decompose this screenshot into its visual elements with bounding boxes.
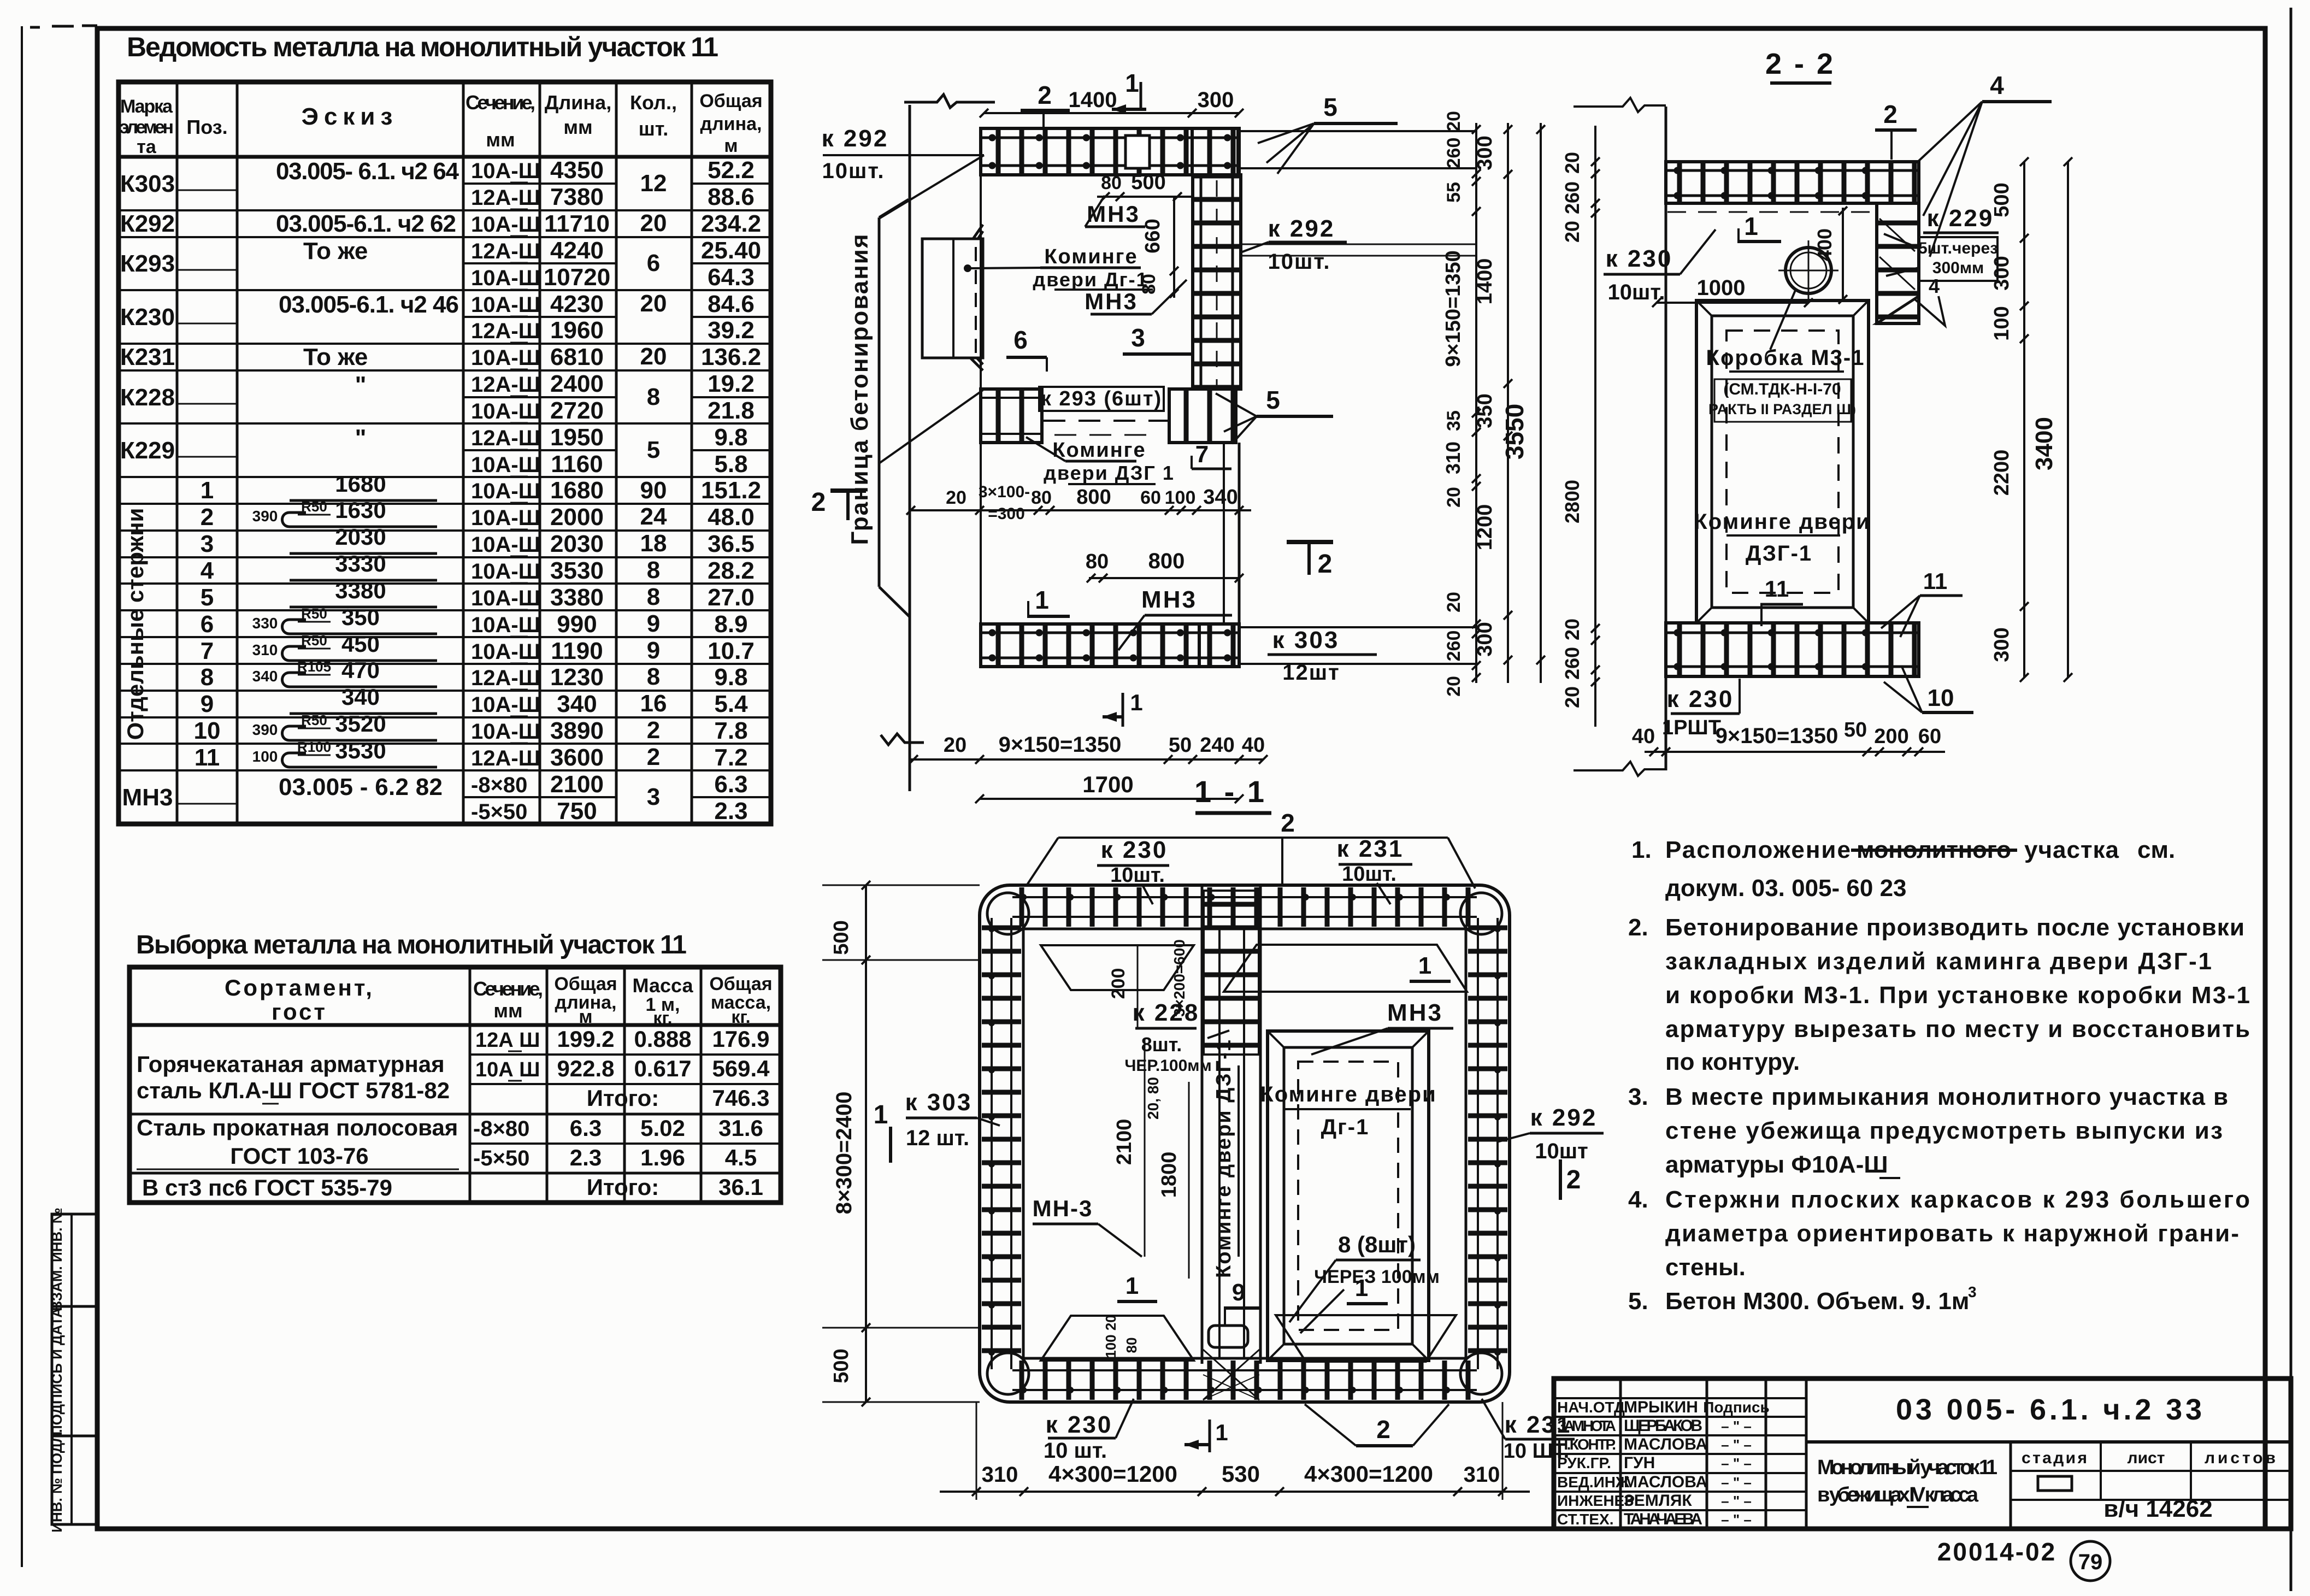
shaft rebar к228	[1204, 891, 1259, 1055]
table 1 values, Общая длина column	[701, 157, 761, 824]
left stamp strip box	[52, 1214, 98, 1524]
svg-text:1: 1	[1125, 1273, 1139, 1299]
svg-text:Отдельные стержни: Отдельные стержни	[122, 508, 148, 740]
left wall edge	[1665, 107, 1667, 770]
svg-text:84.6: 84.6	[708, 291, 755, 317]
svg-text:1680: 1680	[550, 477, 604, 504]
svg-text:136.2: 136.2	[701, 344, 761, 370]
svg-text:36.1: 36.1	[718, 1174, 763, 1200]
svg-text:1800: 1800	[1158, 1152, 1181, 1198]
table 1 header	[119, 91, 763, 157]
svg-text:В месте примыкания монолит: В месте примыкания монолитного участка в	[1665, 1083, 2228, 1110]
svg-text:6.3: 6.3	[570, 1115, 602, 1141]
svg-text:3400: 3400	[2031, 417, 2058, 470]
svg-text:31.6: 31.6	[718, 1115, 763, 1141]
svg-text:2 - 2: 2 - 2	[1765, 48, 1835, 80]
svg-text:48.0: 48.0	[708, 504, 755, 531]
svg-text:ТАНАЧАЕВА: ТАНАЧАЕВА	[1624, 1510, 1702, 1528]
svg-text:20, 80: 20, 80	[1145, 1077, 1162, 1120]
svg-text:340: 340	[1203, 486, 1237, 509]
svg-text:60: 60	[1140, 487, 1161, 508]
slab lines right (mid)	[1241, 244, 1476, 245]
svg-text:Расположение: Расположение	[1665, 837, 1852, 863]
svg-text:350: 350	[1474, 393, 1496, 428]
svg-text:Подпись: Подпись	[1703, 1399, 1770, 1416]
svg-text:по контуру.: по контуру.	[1665, 1049, 1800, 1075]
mark 1 (C bottom)	[1209, 1420, 1211, 1452]
svg-text:участка: участка	[2024, 837, 2120, 863]
svg-text:– " –: – " –	[1721, 1455, 1752, 1471]
svg-text:310: 310	[1464, 1463, 1500, 1487]
dim 80 500 (upper)	[1097, 196, 1193, 198]
svg-text:260: 260	[1443, 138, 1464, 169]
svg-text:0.617: 0.617	[634, 1056, 691, 1081]
svg-text:2: 2	[647, 717, 660, 744]
svg-text:3×200=600: 3×200=600	[1171, 939, 1188, 1017]
svg-text:м: м	[579, 1006, 592, 1027]
svg-text:500: 500	[830, 920, 853, 955]
svg-text:9: 9	[647, 610, 660, 637]
svg-text:4240: 4240	[550, 237, 604, 264]
svg-text:260: 260	[1561, 181, 1583, 214]
svg-text:двери Дг-1: двери Дг-1	[1033, 268, 1148, 291]
circle cross ticks	[1808, 240, 1810, 301]
table 2: Выборка металла (grid)	[129, 967, 781, 1203]
svg-text:ЧЕР.100мм: ЧЕР.100мм	[1124, 1057, 1211, 1075]
table 1 values, Поз column	[194, 477, 221, 771]
table 2 header	[225, 974, 773, 1028]
svg-text:8шт.: 8шт.	[1141, 1033, 1182, 1056]
svg-text:10А-Ш: 10А-Ш	[471, 613, 540, 637]
slab lines right (bottom)	[1239, 626, 1476, 628]
svg-text:-5×50: -5×50	[471, 800, 527, 824]
svg-text:1: 1	[1418, 952, 1431, 979]
svg-text:10А-Ш: 10А-Ш	[471, 346, 540, 370]
chain mid (300/1400/350/1200/300)	[1507, 123, 1509, 683]
wall line left inner	[909, 105, 911, 791]
svg-text:Сечение,: Сечение,	[465, 91, 535, 114]
svg-text:5: 5	[1323, 93, 1337, 121]
svg-text:Монолитный участок 11: Монолитный участок 11	[1817, 1456, 1997, 1479]
svg-text:340: 340	[557, 691, 597, 717]
svg-text:100: 100	[1990, 306, 2013, 340]
svg-text:8×300=2400: 8×300=2400	[832, 1092, 856, 1215]
svg-text:10А-Ш: 10А-Ш	[471, 266, 540, 290]
svg-text:ДЗГ-1: ДЗГ-1	[1746, 541, 1812, 566]
svg-text:6810: 6810	[550, 344, 604, 370]
svg-text:390: 390	[252, 508, 278, 525]
svg-text:3380: 3380	[550, 584, 604, 611]
svg-text:500: 500	[1990, 182, 2013, 217]
svg-text:ЗАМ.НОТА: ЗАМ.НОТА	[1557, 1417, 1616, 1434]
right dim chain 1 (500/300/100/2200/300)	[2023, 162, 2025, 678]
svg-text:2: 2	[1883, 100, 1897, 128]
svg-text:330: 330	[252, 615, 278, 632]
svg-text:79: 79	[2078, 1550, 2103, 1574]
svg-text:1950: 1950	[550, 424, 604, 451]
svg-text:R50: R50	[301, 498, 327, 515]
svg-text:к 303: к 303	[1272, 627, 1340, 653]
svg-text:3530: 3530	[335, 738, 386, 763]
svg-text:1: 1	[1125, 69, 1139, 97]
svg-text:100: 100	[1165, 487, 1196, 508]
rebar band C left	[982, 918, 1021, 1369]
svg-text:36.5: 36.5	[708, 531, 755, 557]
svg-text:арматуру вырезать по мес: арматуру вырезать по месту и восстановит…	[1665, 1016, 2250, 1043]
table 1 values, Марка column	[120, 170, 175, 811]
svg-text:": "	[355, 372, 367, 398]
svg-text:55: 55	[1443, 182, 1464, 203]
svg-text:260: 260	[1443, 631, 1464, 662]
svg-text:1700: 1700	[1082, 772, 1133, 797]
svg-text:мм: мм	[486, 128, 515, 151]
plan inner boundary	[1023, 929, 1466, 1358]
corner band B (vertical, к229)	[1877, 203, 1919, 323]
svg-text:– " –: – " –	[1721, 1418, 1752, 1434]
corner loop	[987, 893, 1029, 934]
svg-text:20: 20	[1561, 221, 1583, 243]
svg-text:РАКТЬ II РАЗДЕЛ Ш): РАКТЬ II РАЗДЕЛ Ш)	[1708, 401, 1856, 417]
svg-text:Общая: Общая	[699, 91, 762, 111]
svg-text:12А Ш: 12А Ш	[475, 1029, 540, 1052]
dim 1700	[980, 798, 1239, 800]
svg-text:1190: 1190	[551, 638, 603, 664]
boundary polyline left	[878, 217, 881, 587]
chain fine (20/260/...)	[1475, 123, 1477, 683]
svg-text:1680: 1680	[335, 471, 386, 497]
svg-text:ВЗАМ. ИНВ. №: ВЗАМ. ИНВ. №	[49, 1208, 65, 1311]
svg-text:к 228: к 228	[1133, 999, 1200, 1026]
svg-text:21.8: 21.8	[708, 397, 755, 424]
svg-text:5: 5	[1266, 386, 1280, 414]
svg-text:746.3: 746.3	[712, 1085, 769, 1111]
top break line	[904, 95, 995, 108]
svg-text:стены.: стены.	[1665, 1254, 1746, 1281]
band dots	[992, 134, 1235, 142]
svg-text:5шт.через: 5шт.через	[1918, 239, 1998, 257]
door rect outer	[1268, 1031, 1429, 1361]
svg-text:340: 340	[341, 684, 380, 710]
mark 1 (bottom)	[1122, 693, 1124, 727]
svg-text:199.2: 199.2	[557, 1026, 614, 1052]
rebar band C right	[1468, 918, 1507, 1369]
svg-text:R50: R50	[301, 605, 327, 622]
door box outer	[1696, 301, 1869, 623]
svg-text:1: 1	[1215, 1420, 1228, 1445]
rebar band bottom corner piece	[1199, 624, 1239, 667]
svg-text:мм: мм	[493, 999, 522, 1022]
drawing B: section 2-2	[1561, 48, 2072, 776]
dim 660/80 vertical	[1173, 197, 1175, 298]
svg-text:35: 35	[1443, 410, 1464, 431]
svg-text:20: 20	[1561, 686, 1583, 708]
svg-text:0.888: 0.888	[634, 1026, 691, 1052]
svg-text:9×150=1350: 9×150=1350	[999, 733, 1122, 757]
svg-text:88.6: 88.6	[708, 184, 755, 210]
svg-text:64.3: 64.3	[708, 264, 755, 291]
svg-text:Коминге: Коминге	[1044, 245, 1138, 268]
svg-text:Марка: Марка	[120, 96, 173, 117]
svg-text:20: 20	[1561, 152, 1583, 174]
svg-text:2: 2	[1318, 550, 1333, 579]
svg-text:4: 4	[1990, 71, 2004, 99]
svg-text:3890: 3890	[550, 717, 604, 744]
band dots	[992, 629, 1235, 637]
svg-text:2000: 2000	[550, 504, 604, 531]
bottom break line	[881, 734, 924, 745]
svg-text:и коробки М3-1. При уста: и коробки М3-1. При установке коробки М3…	[1665, 982, 2250, 1009]
svg-text:25.40: 25.40	[701, 237, 761, 264]
slab lines right (top)	[1239, 130, 1476, 132]
door box mitre corners	[1696, 301, 1712, 316]
svg-text:к 292: к 292	[1530, 1104, 1598, 1131]
svg-text:2: 2	[201, 504, 214, 531]
svg-text:9: 9	[647, 637, 660, 664]
chain total 3550	[1540, 123, 1542, 683]
svg-text:176.9: 176.9	[712, 1026, 769, 1052]
svg-text:1: 1	[874, 1100, 888, 1129]
svg-text:к 292: к 292	[822, 125, 889, 152]
svg-text:Коминге двери: Коминге двери	[1694, 510, 1870, 534]
svg-text:1 - 1: 1 - 1	[1194, 774, 1266, 809]
svg-text:5.4: 5.4	[714, 691, 748, 717]
svg-text:ВЕД.ИНЖ: ВЕД.ИНЖ	[1557, 1474, 1630, 1491]
svg-text:1: 1	[1744, 212, 1758, 240]
svg-text:Горячекатаная арматурная: Горячекатаная арматурная	[137, 1051, 445, 1077]
svg-text:10720: 10720	[544, 264, 610, 291]
svg-text:2030: 2030	[335, 524, 386, 550]
svg-text:МН3: МН3	[1085, 288, 1138, 314]
svg-text:2: 2	[1376, 1415, 1390, 1444]
svg-text:R50: R50	[301, 712, 327, 728]
svg-text:Н.КОНТР.: Н.КОНТР.	[1557, 1436, 1616, 1453]
C bottom dim chain 310|4x300=1200|530|4x300=1200|310	[940, 1491, 1530, 1493]
svg-text:Сталь прокатная полосовая: Сталь прокатная полосовая	[137, 1115, 458, 1140]
svg-text:Общая: Общая	[554, 974, 617, 994]
svg-text:6: 6	[201, 611, 214, 638]
svg-text:двери ДЗГ 1: двери ДЗГ 1	[1044, 462, 1175, 484]
svg-text:Итого:: Итого:	[587, 1085, 659, 1111]
svg-text:8: 8	[647, 557, 660, 584]
svg-text:10шт.: 10шт.	[1110, 864, 1165, 887]
svg-text:10А-Ш: 10А-Ш	[471, 293, 540, 317]
svg-text:310: 310	[982, 1463, 1018, 1487]
svg-text:50: 50	[1169, 734, 1192, 757]
svg-text:12 шт.: 12 шт.	[906, 1126, 969, 1150]
svg-text:80: 80	[1031, 487, 1052, 508]
svg-text:3×100-: 3×100-	[979, 483, 1030, 501]
svg-text:20: 20	[1443, 592, 1464, 613]
svg-text:52.2: 52.2	[708, 157, 755, 184]
chute top-left	[1041, 945, 1194, 990]
svg-text:– " –: – " –	[1721, 1493, 1752, 1509]
svg-text:18: 18	[640, 530, 667, 557]
svg-text:310: 310	[252, 641, 278, 658]
svg-text:400: 400	[1813, 228, 1836, 261]
svg-text:8 (8шт): 8 (8шт)	[1338, 1232, 1416, 1257]
left dim chain	[1594, 126, 1596, 727]
svg-text:5: 5	[201, 584, 214, 611]
svg-text:28.2: 28.2	[708, 557, 755, 584]
svg-text:300: 300	[1990, 627, 2013, 662]
svg-text:200: 200	[1108, 968, 1129, 999]
label к293 (6шт)	[1039, 387, 1164, 411]
svg-text:1000: 1000	[1697, 276, 1746, 300]
svg-text:к 230: к 230	[1101, 837, 1168, 863]
svg-text:2720: 2720	[550, 397, 604, 424]
svg-text:см.: см.	[2137, 837, 2175, 863]
door opening dashes	[1044, 420, 1169, 422]
svg-text:9.8: 9.8	[714, 664, 747, 691]
door hatch wedge top	[973, 225, 983, 239]
central shaft walls	[1201, 885, 1204, 1364]
svg-text:2800: 2800	[1561, 480, 1583, 523]
svg-text:ГУН: ГУН	[1624, 1454, 1655, 1472]
table 1 values, Кол column	[640, 170, 667, 810]
svg-text:10 шт.: 10 шт.	[1044, 1439, 1107, 1463]
svg-text:9: 9	[201, 691, 214, 717]
table 2 data	[137, 1026, 770, 1200]
svg-text:1400: 1400	[1069, 88, 1117, 112]
svg-text:4: 4	[1929, 275, 1940, 297]
sheet number circle 79	[2071, 1541, 2110, 1581]
door box inner	[1712, 316, 1853, 608]
svg-text:2100: 2100	[550, 771, 604, 798]
МН3 plate cut in band	[1125, 136, 1150, 168]
svg-text:-8×80: -8×80	[473, 1117, 529, 1141]
svg-text:3330: 3330	[335, 551, 386, 576]
section mark 2 (right T)	[1287, 540, 1333, 544]
sheet edge line left	[21, 26, 23, 1567]
svg-text:Коминге двери ДЗГ-1: Коминге двери ДЗГ-1	[1212, 1039, 1235, 1278]
corner loop	[1460, 893, 1502, 934]
svg-text:12А-Ш: 12А-Ш	[471, 666, 540, 690]
svg-text:20: 20	[1561, 619, 1583, 640]
rebar band к293 (middle)	[981, 389, 1042, 443]
svg-text:660: 660	[1141, 219, 1164, 253]
svg-text:Граница бетонирования: Граница бетонирования	[846, 233, 873, 545]
svg-text:100 20: 100 20	[1103, 1315, 1119, 1358]
svg-text:8.9: 8.9	[714, 611, 747, 638]
svg-text:10А-Ш: 10А-Ш	[471, 720, 540, 744]
svg-text:шт.: шт.	[639, 117, 668, 140]
svg-text:5.: 5.	[1628, 1288, 1648, 1315]
svg-text:R105: R105	[297, 658, 331, 675]
svg-text:Сортамент,: Сортамент,	[225, 975, 374, 1000]
svg-text:МН3: МН3	[1141, 586, 1197, 613]
svg-text:1РШТ: 1РШТ	[1662, 716, 1721, 739]
svg-text:МН-3: МН-3	[1033, 1195, 1093, 1221]
wall lines below	[1223, 443, 1225, 624]
right dim chain 2 (3400)	[2067, 162, 2069, 678]
svg-text:340: 340	[252, 668, 278, 685]
svg-text:Длина,: Длина,	[545, 91, 611, 114]
svg-text:234.2: 234.2	[701, 210, 761, 237]
svg-text:1230: 1230	[550, 664, 604, 691]
svg-text:300мм: 300мм	[1932, 259, 1984, 277]
svg-text:10: 10	[1928, 685, 1954, 711]
rebar band C bottom	[1012, 1361, 1477, 1400]
svg-text:260: 260	[1561, 647, 1583, 680]
svg-text:80: 80	[1123, 1338, 1140, 1353]
rebar band middle corner	[1169, 389, 1236, 443]
svg-text:12А-Ш: 12А-Ш	[471, 186, 540, 210]
svg-text:20: 20	[946, 487, 967, 508]
svg-text:9: 9	[1232, 1279, 1245, 1306]
svg-text:Общая: Общая	[709, 974, 772, 994]
svg-text:10А-Ш: 10А-Ш	[471, 453, 540, 477]
svg-text:2030: 2030	[550, 531, 604, 557]
svg-text:гост: гост	[272, 999, 327, 1024]
corner loop	[1460, 1353, 1502, 1394]
door rect dashed	[1298, 1062, 1398, 1330]
svg-text:МН3: МН3	[1387, 999, 1443, 1026]
band dots	[1677, 629, 1912, 637]
notes list	[1628, 837, 2250, 1315]
svg-text:мм: мм	[563, 116, 592, 138]
svg-text:569.4: 569.4	[712, 1056, 770, 1081]
band dots	[1677, 167, 1912, 174]
svg-text:НАЧ.ОТД: НАЧ.ОТД	[1557, 1399, 1625, 1416]
svg-text:19.2: 19.2	[708, 370, 755, 397]
svg-text:элемен: элемен	[119, 117, 174, 138]
svg-text:9×150=1350: 9×150=1350	[1716, 724, 1838, 748]
svg-text:11710: 11710	[544, 210, 610, 237]
svg-text:800: 800	[1076, 486, 1111, 509]
svg-text:11: 11	[1765, 576, 1789, 602]
svg-text:К292: К292	[120, 210, 175, 237]
svg-text:8: 8	[647, 384, 660, 410]
svg-text:12А-Ш: 12А-Ш	[471, 426, 540, 450]
rebar band C top	[1012, 887, 1477, 927]
strip text column divider	[70, 1214, 73, 1524]
svg-text:МАСЛОВА: МАСЛОВА	[1624, 1473, 1707, 1491]
svg-text:20014-02: 20014-02	[1937, 1538, 2056, 1566]
svg-text:3: 3	[1968, 1283, 1977, 1300]
door frame jamb	[922, 239, 983, 358]
svg-text:в убежищах IV класса: в убежищах IV класса	[1817, 1483, 1979, 1506]
svg-text:к 293 (6шт): к 293 (6шт)	[1041, 387, 1162, 410]
rebar band top corner piece	[1192, 128, 1238, 175]
dim chains right of drawing A	[1442, 111, 1545, 697]
svg-text:2.3: 2.3	[570, 1145, 602, 1170]
drawing C: plan 1-1	[822, 774, 1604, 1500]
svg-text:10шт.: 10шт.	[1268, 250, 1330, 274]
svg-text:12А-Ш: 12А-Ш	[471, 319, 540, 343]
svg-text:к 230: к 230	[1046, 1411, 1113, 1438]
svg-text:3: 3	[201, 531, 214, 557]
svg-text:9.8: 9.8	[714, 424, 747, 451]
svg-text:27.0: 27.0	[708, 584, 755, 611]
svg-text:кг.: кг.	[731, 1007, 750, 1027]
svg-text:1: 1	[1355, 1275, 1368, 1301]
svg-text:03.005 - 6.2 82: 03.005 - 6.2 82	[279, 774, 443, 800]
svg-text:К229: К229	[120, 437, 175, 464]
table 1 values, Длина column	[544, 157, 610, 824]
svg-text:1: 1	[201, 477, 214, 504]
svg-text:6: 6	[647, 250, 660, 276]
svg-text:300: 300	[1198, 88, 1234, 112]
svg-text:3.: 3.	[1628, 1083, 1648, 1110]
plan outer boundary	[980, 885, 1510, 1402]
svg-text:10А-Ш: 10А-Ш	[471, 479, 540, 503]
svg-text:2: 2	[811, 488, 826, 517]
chute bottom-left	[1041, 1316, 1194, 1361]
МН-3 plate at shaft bottom	[1209, 1326, 1248, 1347]
svg-text:80: 80	[1086, 550, 1109, 573]
svg-text:Выборка металла на монолитн: Выборка металла на монолитный участок 11	[136, 930, 688, 959]
svg-text:К230: К230	[120, 304, 175, 331]
